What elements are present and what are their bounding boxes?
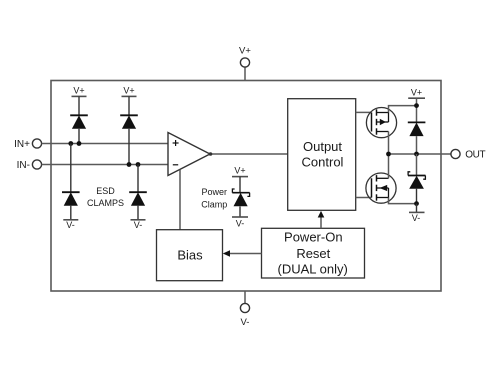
V- rail symbol (output stage) [409,204,425,223]
svg-text:Clamp: Clamp [201,200,227,210]
label Power Clamp [201,187,227,210]
svg-text:IN+: IN+ [14,139,30,150]
V- rail symbol (ESD column 2) [131,220,146,230]
node IN- / lower diode junction [136,162,141,167]
svg-text:V-: V- [241,317,250,328]
V+ rail symbol (ESD column 2) [122,86,137,116]
pin IN- [17,160,51,171]
svg-text:V-: V- [66,220,75,230]
svg-text:IN-: IN- [17,160,30,171]
wire NMOS source to V- node [389,198,417,204]
svg-text:V+: V+ [234,166,245,176]
wire op-amp output to Output Control [209,152,288,156]
transistor PMOS (high side) [366,108,396,138]
svg-text:Power: Power [202,187,228,197]
zener diode V- to output [408,154,426,204]
svg-text:Power-On: Power-On [284,229,343,244]
svg-text:CLAMPS: CLAMPS [87,198,124,208]
wire POR to Output Control (arrow up) [318,211,325,228]
ESD diode IN- to V+ [120,115,138,164]
svg-text:V+: V+ [73,86,84,96]
V+ rail symbol (ESD column 1) [72,86,87,116]
wire NMOS drain to output node [388,154,390,178]
label ESD CLAMPS [87,186,124,208]
node IN+ / diode junction [77,141,82,146]
svg-text:V+: V+ [239,46,251,57]
main IC boundary box [51,81,441,292]
wire PMOS drain to output node [388,132,390,155]
pin V- (bottom) [240,291,249,328]
node V+ / PMOS source junction [414,103,419,108]
pin IN+ [14,139,51,150]
wire Output Control to NMOS gate [356,197,372,199]
svg-text:V-: V- [236,219,245,229]
node V- / NMOS source junction [414,201,419,206]
ESD diode IN+ to V+ [70,115,88,143]
svg-text:V-: V- [134,220,143,230]
node output / PMOS-NMOS junction [386,152,391,157]
V+ rail symbol (power clamp) [232,166,248,193]
wire IN+ net [51,143,168,145]
diode output to V+ [408,122,426,154]
wire output node to OUT [389,153,442,155]
block Output Control [288,99,356,211]
wire POR to Bias (arrow) [223,250,262,257]
wire PMOS source to V+ node [389,106,417,113]
svg-text:V-: V- [412,213,421,223]
node IN+ / lower diode junction [68,141,73,146]
svg-text:OUT: OUT [465,149,485,160]
svg-text:Reset: Reset [296,246,330,261]
wire IN- net [51,164,168,166]
op-amp U1 [168,133,210,176]
wire Output Control to PMOS gate [356,111,372,113]
V+ rail symbol (output stage) [408,87,425,122]
pin V+ (top) [239,46,251,81]
V- rail symbol (power clamp) [232,217,248,229]
pin OUT [441,149,486,160]
V- rail symbol (ESD column 1) [63,220,78,230]
ESD diode V- to IN- [129,165,147,220]
transistor NMOS (low side) [366,173,396,203]
ESD diode V- to IN+ [62,144,80,220]
svg-text:ESD: ESD [96,186,115,196]
block Power-On Reset (DUAL only) [262,228,365,278]
svg-text:Control: Control [302,154,344,169]
svg-text:Bias: Bias [177,248,203,263]
svg-text:Output: Output [303,139,342,154]
node output / diode junction [414,152,419,157]
svg-text:V+: V+ [123,86,134,96]
svg-text:(DUAL only): (DUAL only) [278,261,348,276]
svg-text:V+: V+ [411,87,422,97]
zener diode power clamp [232,189,249,217]
node IN- / diode junction [127,162,132,167]
block Bias [157,230,223,281]
wire op-amp V- supply to Bias [179,170,181,230]
